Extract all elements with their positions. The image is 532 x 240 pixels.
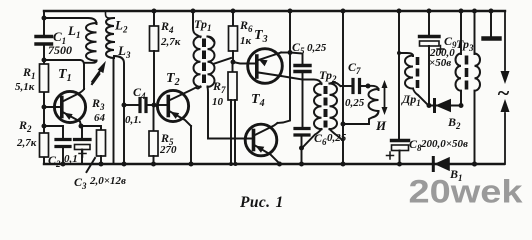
svg-text:10: 10 [212,96,224,108]
svg-text:0,25: 0,25 [307,42,327,54]
wire bias node to C2 [44,126,63,138]
svg-text:Тр2: Тр2 [319,68,337,84]
svg-text:R7: R7 [212,79,226,95]
svg-text:×50в: ×50в [429,57,451,69]
svg-text:2,7к: 2,7к [160,36,181,48]
svg-text:1к: 1к [240,35,252,47]
diode B2 [429,100,461,132]
svg-text:R4: R4 [160,19,174,35]
resistor R4 [150,9,181,106]
node rectifier ground [472,162,477,167]
svg-text:0,1.: 0,1. [125,114,142,126]
wire emitter node to R3 [81,126,101,138]
wire T3 collector to Tr2 top [281,76,303,80]
node R7 ground pair [229,162,233,166]
svg-text:270: 270 [159,144,177,156]
inductor L2 [106,11,128,42]
AC mains connector arrows [497,11,510,164]
choke Dr1 [397,51,429,108]
wire long vertical supply (T3 emitter / T4 collector) [278,9,293,124]
node T4 emitter ground [277,162,282,167]
capacitor C7 [341,60,370,109]
resistor R1 [15,64,49,93]
transformer Tr1 [191,9,253,139]
resistor R7 [212,62,237,164]
capacitor C3 electrolytic [74,140,126,192]
svg-text:1: 1 [276,194,284,211]
inductor L1 [67,23,97,63]
svg-text:R6: R6 [239,18,253,34]
svg-text:0,1: 0,1 [64,153,78,165]
resistor R2 [16,118,49,157]
node C7 output [366,84,371,89]
capacitor C1 [36,29,72,57]
svg-text:200,0×50в: 200,0×50в [420,138,468,150]
node C6 ground [299,162,304,167]
svg-text:Рис.: Рис. [240,194,270,211]
wire mid vertical (rail to ground) [341,9,346,167]
node T3 base junction [231,60,236,65]
tuning arrow (variable inductance) [92,63,105,85]
wire L3 end loop tail [114,56,124,164]
svg-text:20wek: 20wek [409,174,523,210]
wire bottom ground rail [44,163,504,165]
wire L3 inner tail to ground [113,58,115,164]
svg-text:~: ~ [497,80,510,105]
node R5 ground [151,162,156,167]
wire to L1 top [44,18,97,24]
switch bar (top right) [484,9,500,39]
svg-text:В2: В2 [447,115,461,131]
node T2 emitter ground [189,162,194,167]
resistor R3 [91,96,106,164]
svg-text:7500: 7500 [48,43,72,57]
svg-text:Т2: Т2 [166,71,180,88]
svg-text:R2: R2 [18,118,32,134]
svg-text:С5: С5 [292,40,305,56]
wire T1 base [44,106,59,108]
wire left vertical branch [43,11,45,164]
resistor R6 [229,9,254,63]
capacitor C5 [290,40,327,127]
transformer Tr2 [303,68,344,148]
node T1 emitter [79,124,84,129]
svg-text:2,0×12в: 2,0×12в [89,175,126,187]
svg-text:И: И [375,118,387,133]
svg-text:Тр1: Тр1 [194,17,212,33]
wire rectifier vertical with C8 [397,9,403,167]
transistor T3 [248,28,283,83]
node L3 tail / C4 junction [122,103,127,108]
node B2 input [427,103,432,108]
wire base to T2 [154,104,166,106]
svg-text:L2: L2 [114,18,128,35]
wire to L1 bottom / R1 top node [44,60,84,89]
svg-text:2,7к: 2,7к [16,137,37,149]
svg-text:64: 64 [94,112,106,124]
wire top supply rail [44,10,505,12]
svg-text:L1: L1 [67,23,80,40]
capacitor C6 [295,129,347,165]
capacitor C8 electrolytic [387,137,469,159]
node C2 ground [61,162,66,167]
earphone I (coil with arrows) [343,80,388,133]
svg-text:Тр3: Тр3 [456,37,474,53]
inductor L3 [106,42,131,60]
node R3 ground [99,162,104,167]
svg-text:Т3: Т3 [254,28,268,45]
capacitor C2 [48,140,78,170]
svg-text:Т1: Т1 [58,67,72,84]
capacitor C4 [124,85,154,126]
svg-text:С4: С4 [133,85,146,101]
svg-text:С2: С2 [48,153,61,169]
transistor T2 [157,71,196,164]
diode B1 [433,158,462,184]
resistor R5 [149,105,177,164]
transformer Tr3 [456,9,481,167]
node bias rail left [42,124,47,129]
svg-text:R1: R1 [22,65,36,81]
node L3 tail ground [122,162,127,167]
node R1 top [42,58,47,63]
node C6 / Tr2 junction [299,146,304,151]
transistor T4 [245,92,279,164]
svg-text:0,25: 0,25 [345,97,365,109]
svg-text:С3: С3 [74,175,87,191]
transistor T1 [54,67,85,126]
svg-text:С7: С7 [348,60,361,76]
capacitor C9 electrolytic [420,9,458,106]
svg-text:Т4: Т4 [251,92,265,109]
node A top-left junction [42,16,47,21]
svg-text:R3: R3 [91,96,105,112]
node T1 base [42,105,47,110]
svg-text:5,1к: 5,1к [15,81,35,93]
wire to T3 base [233,62,255,64]
node T2 base / divider [152,103,157,108]
